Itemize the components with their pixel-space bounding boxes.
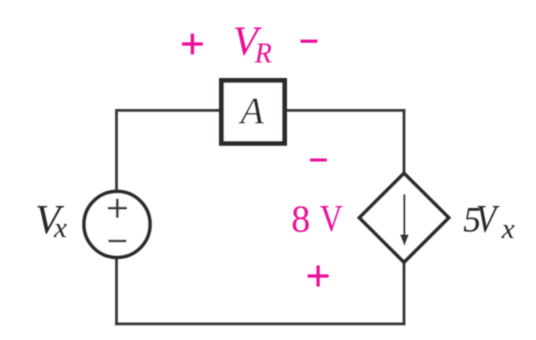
wire: bottom horizontal segment xyxy=(115,322,405,325)
wire: left vertical upper segment xyxy=(115,109,118,192)
dependent source 5Vx: arrow shaft xyxy=(403,194,405,236)
element A: box body xyxy=(221,80,284,143)
voltage source Vx: plus sign inside xyxy=(108,199,127,218)
svg-text:x: x xyxy=(53,212,67,244)
svg-text:A: A xyxy=(238,91,265,133)
polarity label: minus of 8V (magenta) xyxy=(310,159,327,162)
svg-text:8: 8 xyxy=(291,199,310,241)
svg-text:R: R xyxy=(254,38,272,69)
svg-text:V: V xyxy=(320,198,343,240)
dependent source 5Vx: diamond body xyxy=(359,173,448,262)
voltage source Vx: minus sign inside xyxy=(108,240,126,243)
svg-text:x: x xyxy=(501,213,515,245)
polarity label: minus of VR (magenta) xyxy=(301,40,318,43)
wire: right vertical lower segment xyxy=(403,261,406,325)
wire: top-right horizontal segment xyxy=(285,109,405,112)
svg-text:V: V xyxy=(476,198,500,241)
polarity label: plus of VR (magenta) xyxy=(182,34,203,55)
voltage source Vx: circle body xyxy=(84,191,150,257)
dependent source 5Vx: arrow head xyxy=(400,235,409,247)
wire: left vertical lower segment xyxy=(115,258,118,326)
wire: right vertical upper segment xyxy=(403,109,406,175)
wire: top-left horizontal segment xyxy=(117,109,222,112)
polarity label: plus of 8V (magenta) xyxy=(308,266,329,287)
